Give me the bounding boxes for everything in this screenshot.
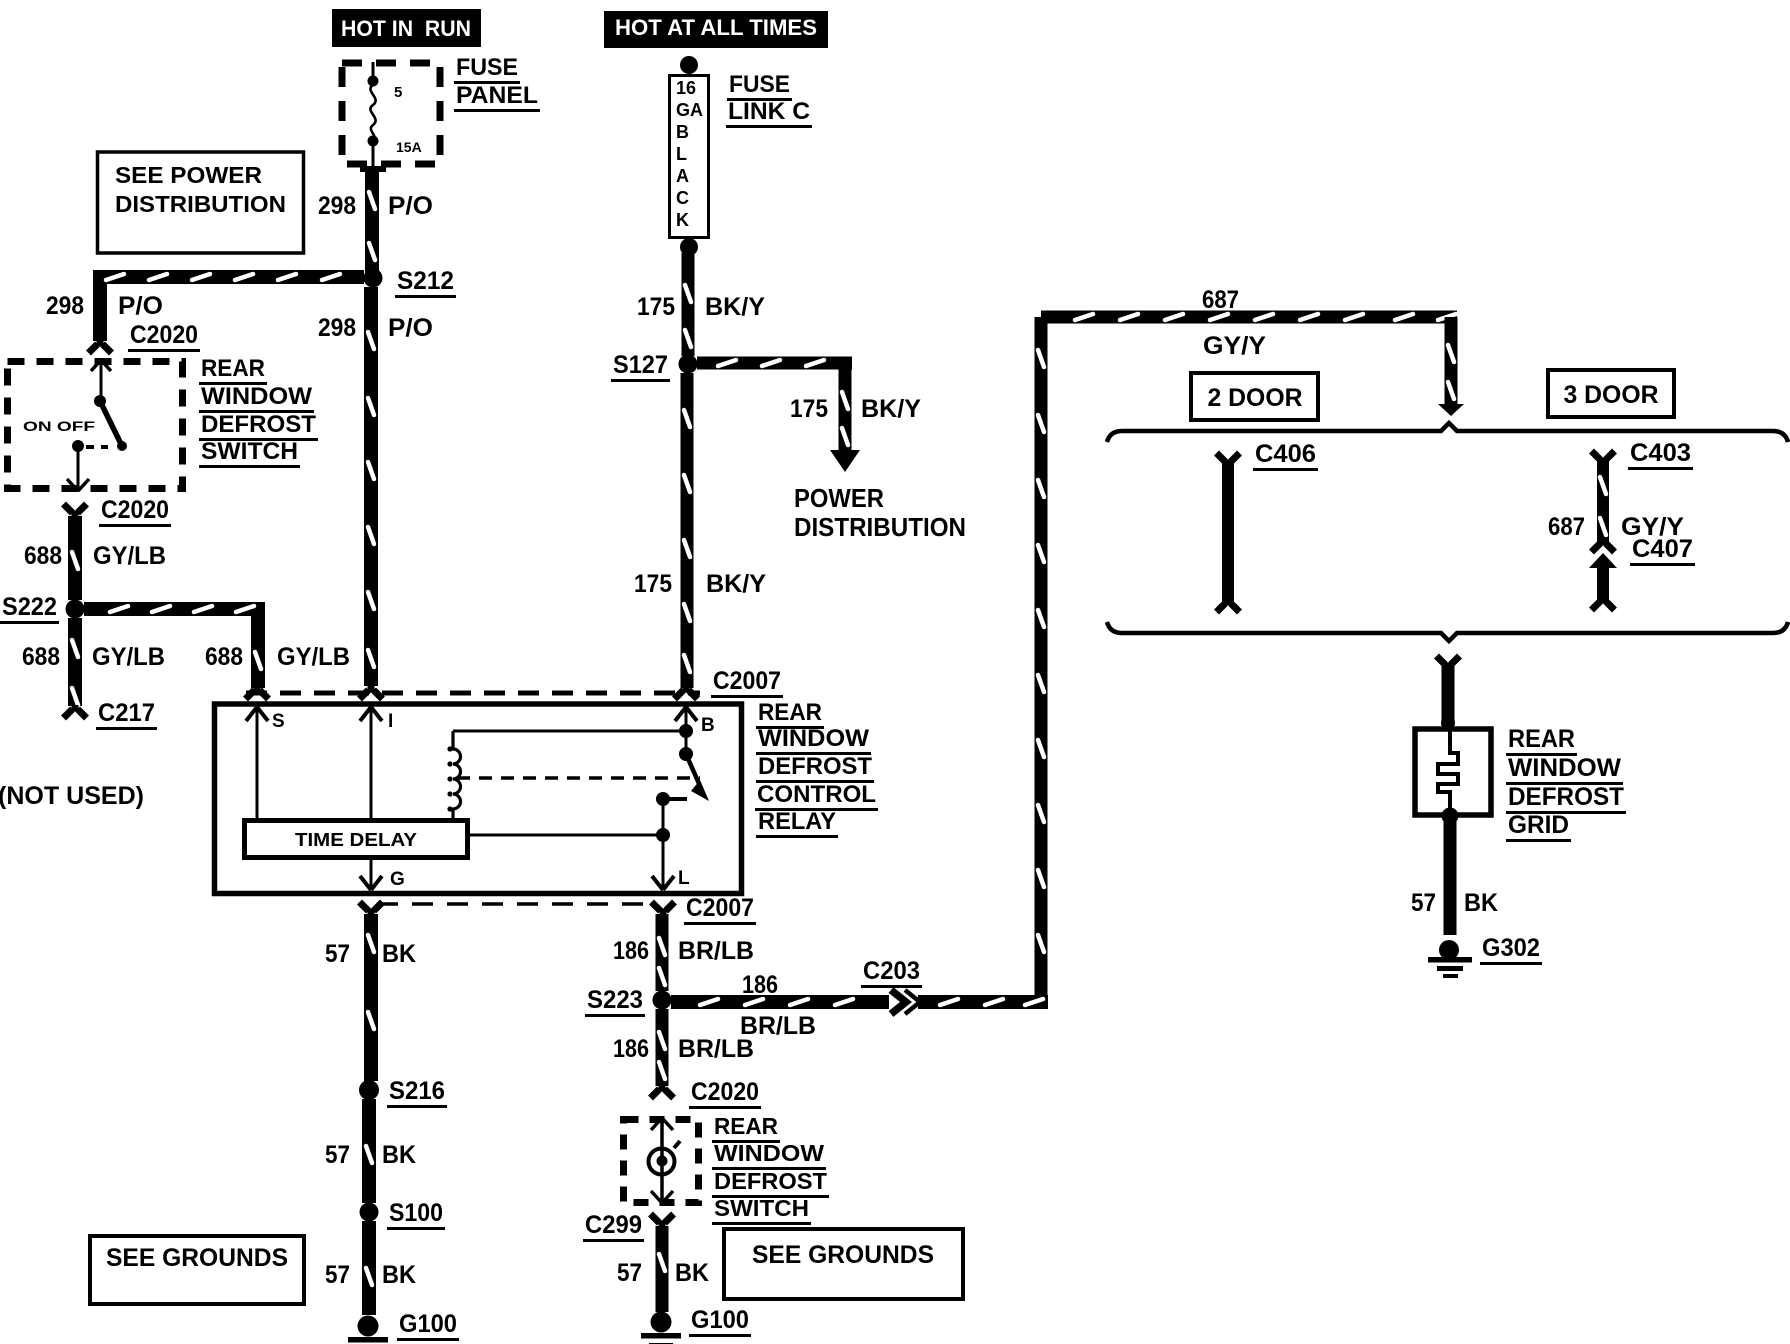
svg-text:175: 175 (637, 293, 675, 321)
svg-text:C299: C299 (585, 1211, 642, 1239)
wire 57 BK relay G to S216 (325, 914, 416, 1081)
wire 298 P/O S212 to rear window defrost switch (46, 270, 364, 341)
svg-text:57: 57 (325, 940, 350, 968)
note box SEE GROUNDS (left) (90, 1236, 304, 1304)
svg-text:S222: S222 (2, 593, 57, 621)
rear window defrost switch lamp dashed box (624, 1120, 699, 1203)
label FUSE LINK C (726, 71, 812, 128)
svg-text:WINDOW: WINDOW (714, 1140, 824, 1166)
svg-text:(NOT USED): (NOT USED) (0, 782, 144, 810)
connector C2007 pin L half (660, 909, 667, 915)
relay mechanical link dashed (457, 776, 700, 780)
power feed box HOT IN RUN (332, 9, 481, 47)
relay pin S (246, 707, 285, 818)
svg-text:DEFROST: DEFROST (1508, 783, 1624, 811)
svg-text:HOT AT ALL TIMES: HOT AT ALL TIMES (615, 15, 817, 40)
svg-text:CONTROL: CONTROL (757, 781, 876, 808)
svg-text:G100: G100 (691, 1306, 749, 1334)
svg-text:GY/LB: GY/LB (92, 643, 165, 671)
svg-text:57: 57 (1411, 889, 1436, 917)
wire 57 BK C299 to G100 (617, 1226, 709, 1312)
svg-text:BK: BK (382, 1261, 416, 1289)
svg-text:186: 186 (742, 971, 778, 999)
bottom alternatives brace (1107, 622, 1788, 641)
connector C406 (2 door) (1217, 440, 1319, 612)
svg-text:SEE GROUNDS: SEE GROUNDS (752, 1241, 934, 1269)
svg-text:LINK C: LINK C (728, 98, 810, 125)
svg-text:S212: S212 (397, 267, 454, 295)
svg-text:175: 175 (634, 570, 672, 598)
ground G100 (right) (641, 1306, 751, 1344)
switch contacts and arm (ON OFF) (23, 360, 127, 491)
svg-text:DEFROST: DEFROST (714, 1168, 827, 1194)
fuse link C 16 GA BLACK (670, 56, 709, 256)
svg-text:PANEL: PANEL (456, 82, 538, 109)
svg-text:BK/Y: BK/Y (705, 293, 765, 321)
wire arrow into door option brace (1438, 317, 1464, 416)
svg-text:POWER: POWER (794, 483, 884, 513)
svg-text:C: C (676, 188, 689, 208)
svg-text:TIME DELAY: TIME DELAY (295, 830, 417, 850)
wire 688 GY/LB S222 to relay pin S (84, 602, 350, 688)
relay coil (447, 731, 686, 818)
svg-text:2 DOOR: 2 DOOR (1208, 384, 1303, 412)
svg-text:15A: 15A (396, 139, 422, 155)
svg-text:P/O: P/O (388, 192, 433, 220)
svg-text:C407: C407 (1632, 535, 1693, 563)
wire 175 BK/Y fuse link to S127 (637, 253, 765, 356)
svg-text:BR/LB: BR/LB (678, 1035, 754, 1063)
svg-text:3 DOOR: 3 DOOR (1564, 381, 1659, 409)
svg-text:WINDOW: WINDOW (758, 725, 869, 752)
svg-text:BK: BK (382, 940, 416, 968)
label REAR WINDOW DEFROST GRID (1506, 725, 1626, 842)
label REAR WINDOW DEFROST SWITCH (199, 355, 318, 468)
svg-text:BK: BK (382, 1141, 416, 1169)
wire 186 BR/LB S223 to C2020 (613, 1009, 754, 1086)
svg-text:57: 57 (325, 1141, 350, 1169)
label REAR WINDOW DEFROST CONTROL RELAY (755, 699, 878, 838)
relay armature contact (669, 724, 709, 801)
connector C2007 pin B half (683, 686, 690, 692)
label REAR WINDOW DEFROST SWITCH (lamp) (712, 1113, 829, 1225)
svg-text:C2020: C2020 (101, 496, 169, 524)
time delay module (245, 821, 468, 858)
relay pin L (470, 792, 690, 890)
connector C2007 pin I half (368, 686, 375, 692)
svg-text:REAR: REAR (714, 1113, 778, 1139)
rear window defrost switch dashed box (8, 362, 183, 489)
wire 298 P/O fuse panel to S212 (318, 166, 433, 278)
svg-text:RELAY: RELAY (758, 808, 836, 835)
relay pin I (360, 707, 393, 818)
svg-text:L: L (676, 144, 687, 164)
svg-text:BK/Y: BK/Y (706, 570, 766, 598)
svg-text:688: 688 (22, 643, 60, 671)
splice S212 (364, 267, 457, 298)
svg-text:GRID: GRID (1508, 811, 1569, 839)
relay pin G (360, 860, 405, 890)
connector C2020 (lamp feed) (651, 1078, 762, 1109)
connector C2007 dashed line (relay bottom) (377, 894, 756, 925)
svg-text:A: A (676, 166, 689, 186)
svg-text:GA: GA (676, 100, 703, 120)
svg-text:57: 57 (617, 1259, 642, 1287)
note POWER DISTRIBUTION (794, 483, 966, 542)
svg-text:C406: C406 (1255, 440, 1316, 468)
connector C407 (3 door) (1589, 535, 1695, 610)
wire 175 BK/Y S127 to power distribution (697, 357, 921, 473)
wire 175 BK/Y S127 to relay pin B (634, 373, 766, 688)
fuse panel dashed box (342, 63, 440, 164)
note box SEE POWER DISTRIBUTION (98, 152, 304, 253)
svg-text:G302: G302 (1482, 934, 1540, 962)
svg-text:BK: BK (1464, 889, 1498, 917)
svg-text:REAR: REAR (1508, 725, 1575, 753)
svg-text:WINDOW: WINDOW (201, 383, 312, 410)
svg-text:GY/LB: GY/LB (277, 643, 350, 671)
svg-text:G: G (390, 869, 405, 890)
svg-text:S223: S223 (587, 986, 643, 1014)
svg-text:C2007: C2007 (686, 894, 754, 922)
ground G302 (1428, 934, 1542, 978)
rear window defrost control relay box (215, 704, 742, 894)
svg-text:WINDOW: WINDOW (1508, 754, 1621, 782)
wire 57 BK grid to G302 (1411, 822, 1498, 935)
svg-text:687: 687 (1202, 286, 1239, 314)
connector C2007 pin S half (254, 686, 261, 692)
power feed box HOT AT ALL TIMES (604, 11, 828, 48)
connector C2020 (switch feed) (89, 321, 201, 353)
top alternatives brace (1107, 423, 1788, 442)
svg-text:I: I (388, 711, 393, 732)
connector C403 (3 door) (1592, 439, 1694, 552)
svg-text:16: 16 (676, 78, 696, 98)
svg-text:186: 186 (613, 937, 649, 965)
svg-text:K: K (676, 210, 689, 230)
wire 687 GY/Y horizontal to 3-door arrow (1041, 286, 1457, 360)
option box 3 DOOR (1548, 370, 1674, 417)
grid feed connector hook (1445, 663, 1452, 669)
connector C217 (not used) (64, 699, 158, 730)
wire 687 GY/Y tall riser (1035, 317, 1048, 995)
svg-text:C2020: C2020 (130, 321, 198, 349)
svg-text:DISTRIBUTION: DISTRIBUTION (115, 191, 286, 217)
fuse 5 15A element (368, 62, 422, 166)
svg-text:688: 688 (24, 542, 62, 570)
svg-text:BK: BK (675, 1259, 709, 1287)
svg-text:BR/LB: BR/LB (678, 937, 754, 965)
connector C2007 pin G half (368, 909, 375, 915)
ground G100 (left) (348, 1310, 459, 1344)
svg-text:P/O: P/O (118, 292, 163, 320)
svg-text:BK/Y: BK/Y (861, 395, 921, 423)
splice S127 (611, 351, 698, 382)
svg-text:REAR: REAR (201, 355, 265, 382)
svg-text:57: 57 (325, 1261, 350, 1289)
svg-text:HOT IN RUN: HOT IN RUN (341, 16, 471, 41)
svg-text:DEFROST: DEFROST (758, 753, 872, 780)
svg-text:L: L (678, 868, 690, 889)
svg-text:C203: C203 (863, 957, 920, 985)
svg-text:P/O: P/O (388, 314, 433, 342)
svg-text:298: 298 (318, 192, 356, 220)
connector C2020 (switch output) (64, 496, 172, 527)
svg-text:GY/Y: GY/Y (1203, 332, 1266, 360)
svg-text:B: B (701, 715, 715, 736)
note box SEE GROUNDS (right) (724, 1229, 963, 1299)
svg-text:REAR: REAR (758, 699, 822, 726)
splice S223 (585, 986, 672, 1017)
svg-text:SWITCH: SWITCH (201, 438, 298, 465)
wire 687 GY/Y C403 to C407 labels (1548, 513, 1684, 541)
svg-text:SEE GROUNDS: SEE GROUNDS (106, 1244, 288, 1272)
connector C299 (583, 1211, 674, 1242)
splice S222 (0, 593, 85, 624)
wire 57 BK S100 to G100 (325, 1221, 416, 1315)
svg-text:SWITCH: SWITCH (714, 1195, 809, 1221)
svg-text:SEE POWER: SEE POWER (115, 162, 262, 188)
svg-text:C217: C217 (98, 699, 155, 727)
svg-text:FUSE: FUSE (456, 54, 518, 81)
wire 688 GY/LB S222 down to C217 (22, 618, 165, 706)
switch illumination lamp (649, 1118, 681, 1203)
label FUSE PANEL (454, 54, 540, 112)
svg-text:298: 298 (318, 314, 356, 342)
wire 186 BR/LB relay L to S223 (613, 914, 754, 991)
svg-text:186: 186 (613, 1035, 649, 1063)
rear window defrost grid resistor (1415, 716, 1491, 825)
splice S100 (360, 1199, 446, 1230)
svg-text:FUSE: FUSE (729, 71, 790, 98)
wire 186 BR/LB C203 to grid feed corner (918, 995, 1048, 1009)
svg-text:687: 687 (1548, 513, 1585, 541)
svg-text:S: S (272, 711, 285, 732)
svg-text:175: 175 (790, 395, 828, 423)
splice S216 (359, 1077, 447, 1108)
svg-text:DISTRIBUTION: DISTRIBUTION (794, 512, 966, 542)
svg-text:C2020: C2020 (691, 1078, 759, 1106)
connector C203 (861, 957, 922, 1014)
svg-text:688: 688 (205, 643, 243, 671)
svg-text:S127: S127 (613, 351, 668, 379)
svg-text:DEFROST: DEFROST (201, 411, 316, 438)
svg-text:C2007: C2007 (713, 667, 781, 695)
svg-text:GY/LB: GY/LB (93, 542, 166, 570)
svg-text:G100: G100 (399, 1310, 457, 1338)
wire 186 BR/LB S223 to C203 (671, 971, 889, 1040)
relay pin B (675, 707, 715, 736)
svg-text:S100: S100 (389, 1199, 443, 1227)
svg-text:ON OFF: ON OFF (23, 418, 96, 434)
svg-text:C403: C403 (1630, 439, 1691, 467)
svg-text:S216: S216 (389, 1077, 445, 1105)
wire 298 P/O S212 to relay pin I (318, 287, 433, 686)
option box 2 DOOR (1191, 373, 1318, 420)
svg-text:5: 5 (394, 84, 402, 101)
wire to defrost grid (1442, 666, 1455, 726)
wire 688 GY/LB switch to S222 (24, 516, 166, 600)
wire 57 BK S216 to S100 (325, 1099, 416, 1203)
connector C2007 dashed line (relay top) (246, 667, 783, 698)
svg-text:298: 298 (46, 292, 84, 320)
svg-text:B: B (676, 122, 689, 142)
